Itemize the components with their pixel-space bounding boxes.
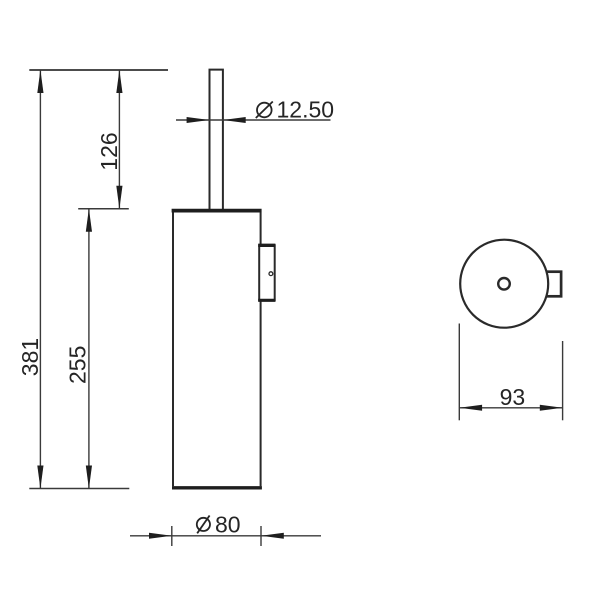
- dimension 93 label: [500, 384, 526, 410]
- dimension 381 line: [37, 70, 43, 489]
- bracket screw hole: [269, 272, 273, 276]
- diameter symbol 80: [197, 516, 210, 534]
- top extension line (y=70): [29, 69, 168, 71]
- dimension 93 line: [459, 405, 562, 411]
- canister bottom plate: [172, 486, 262, 489]
- center hole (top view): [498, 278, 510, 290]
- holder circle (top view): [460, 240, 548, 328]
- svg-text:381: 381: [17, 338, 43, 376]
- dimension 255 line: [86, 209, 92, 489]
- dimension 80 extension ticks: [172, 526, 261, 546]
- brush handle rod: [210, 70, 223, 209]
- svg-text:126: 126: [96, 132, 122, 170]
- dimension 126 label: [96, 132, 122, 170]
- wall bracket: [258, 245, 275, 300]
- dimension 80 line: [130, 533, 321, 539]
- canister body: [173, 213, 261, 487]
- dimension 255 label: [65, 346, 91, 384]
- middle extension line (y=208.7): [78, 208, 129, 210]
- dimension 381 label: [17, 338, 43, 376]
- svg-text:80: 80: [215, 511, 241, 537]
- dimension 126 line: [116, 70, 122, 209]
- dimension 93 extension lines: [459, 324, 562, 421]
- svg-text:12.50: 12.50: [277, 97, 335, 123]
- canister lid: [172, 209, 262, 213]
- svg-text:255: 255: [65, 346, 91, 384]
- dimension 12.50 line: [176, 117, 331, 123]
- dimension 12.50 label: [277, 97, 335, 123]
- wall tab (top view): [540, 272, 561, 297]
- svg-text:93: 93: [500, 384, 526, 410]
- diameter symbol 12.50: [256, 102, 273, 119]
- bottom extension line (y=488.5): [29, 488, 129, 490]
- dimension 80 label: [215, 511, 241, 537]
